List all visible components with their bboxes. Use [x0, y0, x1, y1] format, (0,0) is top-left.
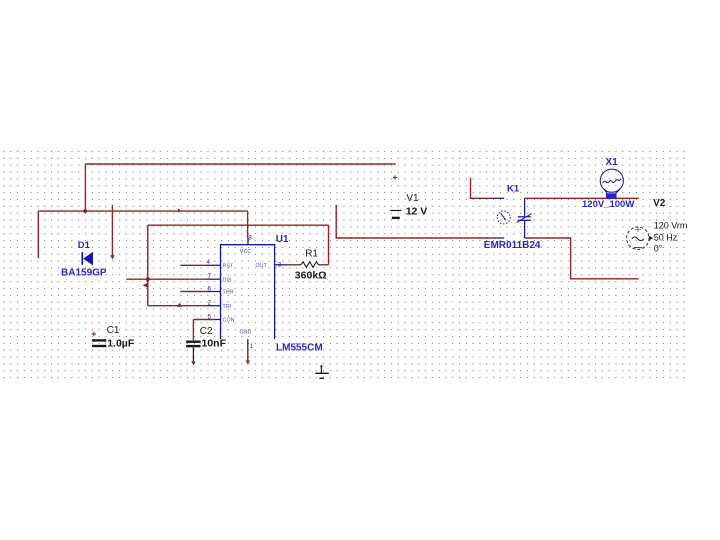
- arrow on vertical wire: [143, 283, 148, 288]
- svg-text:50 Hz: 50 Hz: [654, 233, 678, 243]
- wire C right vertical to R1: [328, 225, 330, 265]
- wire contact bottom: [525, 238, 639, 279]
- wire pin1 down: [247, 352, 249, 361]
- diode D1: [81, 252, 83, 265]
- svg-text:GND: GND: [240, 330, 252, 336]
- svg-text:DIS: DIS: [223, 277, 233, 283]
- svg-text:EMR011B24: EMR011B24: [484, 240, 541, 251]
- svg-text:D1: D1: [78, 240, 91, 251]
- capacitor C1: [92, 339, 106, 341]
- svg-text:U1: U1: [276, 234, 289, 245]
- wire A vertical drop: [84, 164, 86, 211]
- relay K1 coil stubs: [491, 197, 504, 199]
- pin stubs left: [206, 264, 221, 266]
- svg-text:RST: RST: [223, 264, 235, 270]
- svg-text:VCC: VCC: [240, 249, 252, 255]
- svg-text:360kΩ: 360kΩ: [295, 269, 327, 281]
- svg-text:0°: 0°: [654, 244, 663, 254]
- wire TRI horizontal: [148, 305, 206, 307]
- svg-text:K1: K1: [507, 184, 520, 195]
- svg-text:X1: X1: [606, 157, 619, 168]
- svg-text:BA159GP: BA159GP: [61, 267, 107, 278]
- svg-text:CON: CON: [223, 318, 235, 324]
- svg-text:C2: C2: [200, 326, 213, 337]
- wire C horizontal (R1 top net): [148, 224, 329, 226]
- node tick on wire B: [178, 209, 180, 212]
- source V2: [627, 227, 649, 249]
- wire top A horizontal: [85, 163, 395, 165]
- svg-text:V1: V1: [406, 193, 419, 204]
- svg-text:C1: C1: [107, 325, 120, 336]
- pin 1 stub: [247, 339, 249, 352]
- pin 3 stub: [275, 264, 288, 266]
- wire B to VCC vertical: [247, 211, 249, 238]
- wire V1 bottom long: [336, 205, 491, 238]
- wire contact top to lamp: [525, 197, 639, 199]
- capacitor C2: [186, 341, 201, 343]
- wire DIS: [126, 278, 206, 280]
- U1 pin names: [223, 249, 268, 336]
- lamp X1: [600, 169, 623, 192]
- node junction DIS: [146, 277, 150, 281]
- svg-text:V2: V2: [653, 198, 666, 209]
- wire B left vertical: [37, 211, 39, 258]
- svg-text:TRI: TRI: [223, 304, 232, 310]
- wire dangling vertical with arrow: [111, 205, 113, 256]
- arrow on TRI wire: [177, 303, 182, 307]
- svg-text:R1: R1: [305, 248, 318, 259]
- wire RST: [180, 264, 205, 266]
- resistor R1: [296, 262, 323, 268]
- wire THR: [180, 291, 205, 293]
- pin 8 stub: [247, 238, 249, 244]
- battery V1: [390, 210, 401, 212]
- svg-text:LM555CM: LM555CM: [276, 343, 323, 354]
- relay K1 coil circle: [497, 211, 510, 224]
- svg-text:THR: THR: [223, 290, 234, 296]
- wire relay top-left: [471, 178, 492, 199]
- wire C left vertical to TRI: [147, 225, 149, 306]
- svg-text:120V_100W: 120V_100W: [582, 199, 634, 210]
- node junction A/B: [83, 209, 87, 213]
- wire CON: [193, 319, 214, 321]
- svg-text:OUT: OUT: [256, 263, 268, 269]
- svg-text:12 V: 12 V: [406, 205, 428, 217]
- ground: [320, 367, 322, 374]
- svg-text:1.0µF: 1.0µF: [107, 337, 135, 349]
- wire CON down to C2: [192, 320, 194, 341]
- wire B horizontal: [38, 210, 247, 212]
- U1 pin numbers: [207, 236, 282, 350]
- op 555 U1 box: [221, 245, 275, 339]
- relay K1 contact: [524, 198, 526, 216]
- svg-text:120 Vrm: 120 Vrm: [654, 221, 688, 231]
- svg-text:10nF: 10nF: [202, 338, 227, 350]
